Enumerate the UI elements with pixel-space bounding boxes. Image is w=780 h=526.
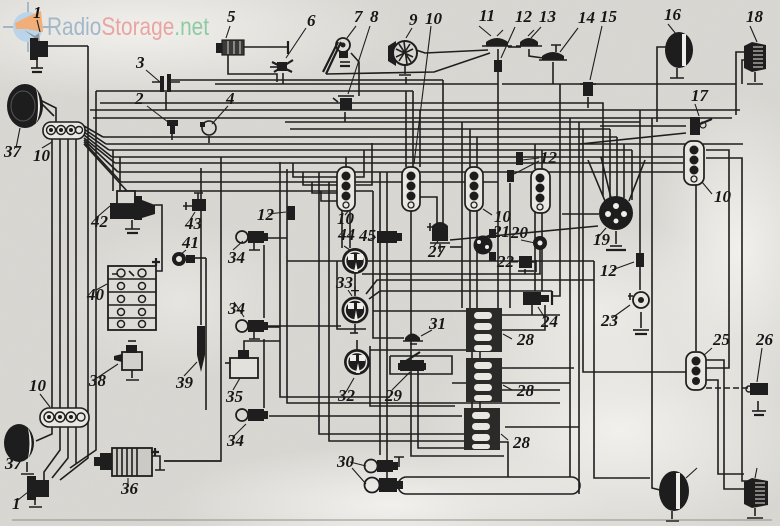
logo RadioStorage.net [3, 2, 209, 52]
wire 34 chain column [263, 245, 265, 318]
wire 34c link [269, 415, 462, 417]
fuse 12a [268, 206, 295, 220]
connector 10a [402, 26, 431, 211]
wire fuse block interlinks [471, 352, 473, 358]
connector 10 left [42, 122, 85, 148]
connector 25 [686, 348, 712, 390]
wire connector 10a bottom drop [410, 207, 412, 360]
wire coil secondary stub [450, 246, 462, 248]
wire [497, 49, 499, 61]
wire [706, 150, 729, 368]
lamp 1 top-left [30, 20, 48, 72]
wire fuse 12 drop [509, 183, 511, 308]
wire fuse right links [501, 314, 560, 316]
component 7 dimmer switch [323, 26, 356, 74]
wire [370, 349, 467, 351]
component 17 [690, 104, 712, 135]
svg-text:14: 14 [578, 8, 595, 27]
wire [290, 128, 610, 130]
wire [67, 139, 69, 409]
wire [623, 144, 625, 198]
wire [631, 150, 633, 200]
wire [75, 421, 77, 464]
svg-text:3: 3 [135, 53, 145, 72]
svg-text:43: 43 [184, 214, 203, 233]
wire staircase into connector 10b right [356, 150, 364, 177]
wire [84, 140, 118, 172]
svg-text:1: 1 [33, 3, 42, 22]
wire 34b link [268, 326, 280, 328]
component 2 [147, 106, 178, 134]
wire block 28a left feeds [373, 310, 467, 312]
wire [354, 324, 356, 333]
wire [287, 169, 560, 403]
gauge 21 circle [474, 229, 497, 261]
wire gauge 44 right link [368, 260, 594, 262]
wire right trunk to lamp15b [652, 118, 660, 490]
wire staircase into connector 10b left [293, 163, 337, 177]
svg-text:13: 13 [539, 7, 557, 26]
headlamp 37 bottom [4, 424, 34, 474]
svg-text:5: 5 [227, 7, 236, 26]
connector 10b [337, 167, 355, 215]
lamp 1 bottom [18, 476, 49, 507]
wire 23 ground stem [640, 312, 642, 328]
wire comp3 stem [165, 92, 167, 110]
wire [386, 172, 388, 478]
wire [106, 143, 743, 145]
svg-text:37: 37 [3, 142, 23, 161]
wire headlamp37a bracket [40, 100, 56, 122]
wire comp8 stem [344, 112, 346, 122]
wire right mid verticals down [569, 118, 571, 477]
wire [109, 149, 632, 151]
wire coil HT lead [450, 226, 598, 240]
wire [356, 340, 358, 349]
svg-text:10: 10 [33, 146, 51, 165]
wire [529, 49, 543, 58]
scan edge line [12, 519, 772, 521]
wire long horizontal y383 [452, 382, 570, 384]
wire [479, 400, 481, 408]
wire [312, 182, 337, 193]
wire comp5 link [228, 55, 277, 82]
svg-text:12: 12 [600, 261, 618, 280]
wire lamp1a ground stem [36, 60, 38, 68]
pump 38 [97, 341, 142, 380]
wire distributor left link [562, 213, 599, 215]
resistor 45 [368, 231, 402, 243]
fuse block 28c [464, 408, 508, 450]
relay 43 [183, 193, 206, 220]
wire [103, 136, 617, 138]
wire conn25 to 26 [706, 387, 750, 389]
wire gauge33 plus to switch 24 [366, 280, 594, 294]
wire [326, 53, 490, 74]
wire vertical trunk left pair [60, 46, 88, 480]
wire [121, 181, 498, 183]
wire conn25 to lamp18b [706, 360, 746, 489]
wire [59, 139, 61, 409]
wire lamp1a feed [48, 45, 88, 47]
svg-text:30: 30 [336, 452, 355, 471]
wire [285, 121, 640, 123]
wire [44, 421, 60, 480]
wire distributor fan [588, 160, 605, 201]
wire comp7 link [351, 53, 359, 96]
wire below conn10b to gauges [341, 211, 343, 248]
wire [84, 144, 127, 191]
wire [479, 352, 481, 358]
wire [505, 426, 579, 428]
wire coil27 feeds [420, 197, 437, 225]
wire conn10d feeders [534, 144, 536, 169]
svg-text:36: 36 [120, 479, 139, 498]
wire x380/x387 to items30 [379, 172, 381, 455]
sender 22 [509, 256, 536, 272]
wire 12c to 23 [639, 266, 641, 290]
svg-text:9: 9 [409, 10, 418, 29]
wire [354, 274, 356, 296]
lamp 18 bottom [744, 468, 768, 518]
wire [96, 90, 413, 92]
wire switch24 stem [531, 305, 533, 315]
wire gauge 44 left feed [287, 260, 342, 262]
wire [412, 91, 414, 167]
wire box29 outline [390, 356, 452, 374]
headlamp 16 [665, 24, 693, 78]
svg-text:1: 1 [12, 494, 21, 513]
distributor 19 [599, 196, 633, 250]
wire [70, 91, 96, 468]
wire conn10e to conn25 [695, 182, 697, 351]
wire [418, 371, 464, 448]
wire [263, 339, 265, 408]
component 4 [200, 106, 228, 135]
wire lamp18a feeds [736, 52, 748, 115]
wire [742, 60, 748, 84]
wire comp14 stem [552, 62, 554, 84]
svg-text:23: 23 [600, 311, 619, 330]
wire [706, 158, 748, 481]
buzzer 31 [403, 330, 432, 344]
svg-text:10: 10 [425, 9, 443, 28]
component 15 top [580, 26, 602, 96]
switch 29 [392, 352, 426, 390]
svg-text:8: 8 [370, 7, 379, 26]
battery 40 [96, 258, 160, 330]
wire [501, 367, 574, 369]
wire x373 trunk to 31 [373, 191, 404, 338]
wire [84, 132, 109, 150]
sender 34 c [234, 409, 268, 436]
wire [127, 190, 373, 192]
wire comp17 links [600, 125, 686, 127]
svg-text:26: 26 [755, 330, 774, 349]
wire [52, 421, 68, 478]
wire starter cables up [112, 150, 114, 191]
item 41 [172, 250, 195, 266]
wire 39 stem trunk [200, 168, 202, 325]
svg-text:6: 6 [307, 11, 316, 30]
wire [541, 211, 543, 291]
wire 26 ground [757, 401, 759, 411]
wire [171, 79, 443, 81]
component 8 [333, 26, 370, 110]
wire 29 switch drops [411, 371, 504, 456]
wire [471, 400, 473, 408]
gauge 32 [344, 349, 370, 392]
wire [84, 138, 115, 163]
wire [84, 142, 121, 182]
wire battery trunk x162 [150, 205, 162, 271]
wire [442, 80, 444, 225]
svg-text:34: 34 [227, 248, 245, 267]
wire conn10d to switch24 [534, 211, 536, 291]
wire lamp16 feed [657, 47, 666, 122]
wire [370, 346, 455, 406]
wire bottom horizontals [319, 172, 464, 434]
starter 42 [96, 191, 155, 233]
wire [419, 110, 421, 167]
relay 35 [225, 350, 258, 390]
wire 35 link [244, 341, 280, 352]
lamp 18 top-right [744, 26, 766, 84]
wire [369, 291, 552, 299]
component 5 [216, 26, 288, 55]
wire [461, 122, 463, 308]
svg-text:11: 11 [479, 6, 495, 25]
wire [119, 157, 121, 191]
sender 20 [521, 236, 547, 260]
headlamp 15 bottom [659, 468, 697, 521]
wire [84, 135, 112, 157]
wire [349, 211, 351, 248]
wire [356, 143, 372, 185]
wire comp4 stem [208, 136, 210, 143]
sender 34 a [233, 231, 268, 250]
component 11 horn button [479, 26, 512, 46]
wire right verticals to distributor [609, 129, 611, 198]
wire [578, 122, 580, 494]
svg-text:2: 2 [134, 89, 144, 108]
svg-text:12: 12 [515, 7, 533, 26]
wire [84, 129, 106, 144]
fuse block 28b [466, 358, 512, 402]
wire center trunks [280, 162, 390, 397]
wire comp6 stem [282, 73, 284, 84]
wire [541, 150, 543, 169]
wire [476, 137, 478, 308]
svg-text:17: 17 [691, 86, 710, 105]
wire [118, 171, 683, 173]
svg-text:16: 16 [664, 5, 682, 24]
wire right trunk to conn25 [583, 129, 686, 372]
wire [329, 182, 464, 441]
wire [90, 109, 740, 111]
svg-text:12: 12 [257, 205, 275, 224]
wire [215, 83, 498, 85]
gauge 44 [342, 246, 368, 274]
wire [112, 156, 683, 158]
component 3 [146, 70, 180, 92]
wire trunk x560 [552, 84, 560, 296]
svg-text:10: 10 [337, 209, 355, 228]
wire x206 trunk [205, 258, 207, 410]
wire [580, 133, 686, 144]
svg-text:RadioStorage.net: RadioStorage.net [47, 13, 209, 41]
component 12b fuse [494, 27, 515, 72]
wire [93, 117, 732, 119]
wire comp9 stand [405, 77, 407, 84]
wire y274 link [362, 260, 540, 274]
svg-text:35: 35 [225, 387, 244, 406]
wire conn10b feeders [345, 157, 347, 167]
wire 12c feed [639, 110, 641, 253]
wire 36 to trunk [164, 460, 221, 462]
wire conn10c feeders / fuse trunk [469, 129, 471, 308]
svg-text:15: 15 [600, 7, 618, 26]
wire comp15t stem [587, 97, 589, 108]
svg-text:10: 10 [29, 376, 47, 395]
wire coil27 stem [439, 244, 441, 252]
wire 22 foot [524, 269, 526, 274]
svg-text:25: 25 [712, 330, 731, 349]
wire comp13 link [508, 46, 521, 48]
wire 34b right link [268, 325, 341, 327]
svg-text:41: 41 [181, 233, 199, 252]
wire [321, 191, 337, 201]
switch 23 [612, 292, 649, 334]
svg-text:4: 4 [225, 89, 235, 108]
switch 24 [523, 291, 552, 318]
coil 27 [427, 222, 450, 246]
wire [601, 157, 611, 198]
svg-text:18: 18 [746, 7, 764, 26]
wire conn10a feeders [405, 91, 407, 167]
wire 30a tick [394, 457, 404, 467]
wire gauge 44 left to 33 minus loop [337, 261, 366, 329]
svg-text:28: 28 [516, 330, 535, 349]
generator 36 [94, 448, 165, 486]
wire [594, 261, 650, 478]
switch 26 [746, 348, 768, 415]
gauge 33 ammeter [342, 281, 369, 333]
headlamp 37 top-left [7, 84, 54, 148]
fuse 12c [612, 253, 644, 270]
wire fan from connector 10 left [84, 126, 103, 137]
wire horizontal bus band [100, 103, 603, 196]
wire [501, 389, 560, 391]
wire [75, 139, 77, 409]
wire 41 plug link [194, 257, 206, 259]
component 6 ignition switch [270, 28, 306, 72]
fuse block 28a [466, 308, 512, 352]
svg-text:28: 28 [512, 433, 531, 452]
sender 34 b [234, 302, 268, 339]
svg-text:34: 34 [226, 431, 244, 450]
wire below bottom connector [36, 421, 52, 441]
wire [706, 380, 744, 474]
connector 10e [684, 141, 712, 194]
wire quad down to bottom connector [51, 139, 53, 409]
connector 10 bottom [40, 394, 89, 427]
wire comp11 links [416, 50, 488, 53]
wire [501, 305, 545, 330]
item 39 [184, 326, 205, 376]
wire trunk x221 to generator [164, 157, 221, 461]
svg-text:10: 10 [494, 207, 512, 226]
wire [629, 160, 645, 201]
wire [303, 172, 337, 185]
component 13 [516, 27, 542, 46]
wire [502, 83, 736, 85]
component 9 horn [388, 28, 417, 75]
wire [616, 137, 618, 197]
svg-text:27: 27 [427, 242, 447, 261]
component 14 dome lamp [539, 28, 578, 60]
wire [500, 442, 508, 477]
fuses 12 pair top [507, 152, 539, 182]
wire [115, 162, 683, 164]
wire 34a link [268, 237, 287, 239]
svg-text:32: 32 [337, 386, 356, 405]
connector 10d [531, 169, 550, 213]
lighter 30b [352, 468, 580, 494]
wire comp12b down trunk [497, 70, 499, 308]
wire distributor ground stem [615, 231, 617, 244]
wire comp2 stem [171, 132, 173, 140]
connector 10c [465, 167, 492, 215]
lighter 30a [350, 460, 398, 473]
